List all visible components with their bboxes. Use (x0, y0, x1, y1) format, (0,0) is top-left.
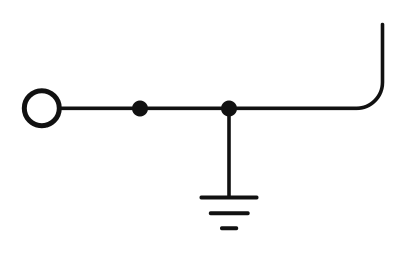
ground bar 1 (202, 196, 257, 200)
junction dot 2 (221, 101, 237, 117)
ground bar 2 (211, 211, 248, 215)
junction dot 1 (132, 101, 148, 117)
ground bar 3 (222, 226, 236, 230)
wire: vertical branch to ground (227, 109, 231, 198)
terminal circle (open contact) (24, 91, 59, 126)
wire: horizontal main wire curving up at right (60, 25, 383, 109)
